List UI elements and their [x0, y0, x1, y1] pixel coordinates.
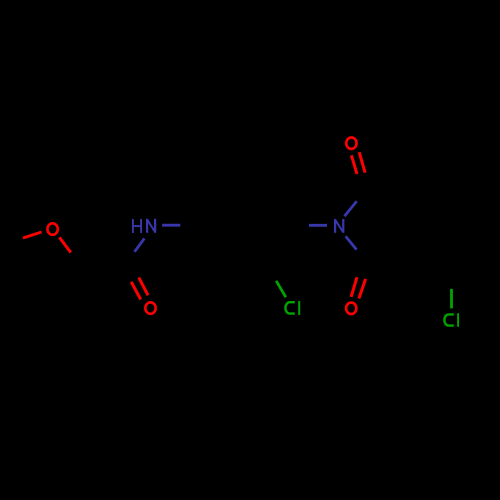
wire: bond N1-phenyl ring (blue half): [162, 224, 180, 227]
wire: bond CH3-O1 (methoxy methyl half, red): [23, 232, 42, 238]
node O4: bottom imide oxygen label: [346, 303, 356, 315]
wire: bond N1-C(=O) amide (blue half): [135, 238, 145, 251]
wire: double bond C1'=O3 (red halves): [351, 155, 357, 174]
node O2: amide carbonyl oxygen label: [145, 302, 155, 314]
wire: bond N2-C2' bottom carbonyl (blue half): [346, 236, 357, 249]
wire: bond N2-C1' top carbonyl (blue half): [344, 201, 356, 216]
node O1: ether oxygen label: [47, 223, 57, 235]
node Cl2: chlorine label on benzo ring: [444, 313, 458, 327]
wire: bond benzo-Cl2 (green half): [450, 289, 453, 309]
node N1: amide N label: [147, 219, 155, 233]
wire: double bond C=O2 amide carbonyl (red halves): [131, 282, 141, 300]
wire: bond O1-CH2 (red half): [59, 237, 70, 252]
wire: bond ring-N2 (blue half): [309, 224, 327, 227]
node N2: imide nitrogen label: [335, 219, 343, 233]
node Cl1: chlorine label on phenyl ring: [285, 301, 299, 315]
node N1: amide H label: [133, 219, 141, 233]
wire: bond ring-Cl1 (green half): [276, 281, 286, 297]
node O3: top imide oxygen label: [346, 137, 356, 149]
wire: double bond C2'=O4 (red halves): [351, 277, 357, 297]
